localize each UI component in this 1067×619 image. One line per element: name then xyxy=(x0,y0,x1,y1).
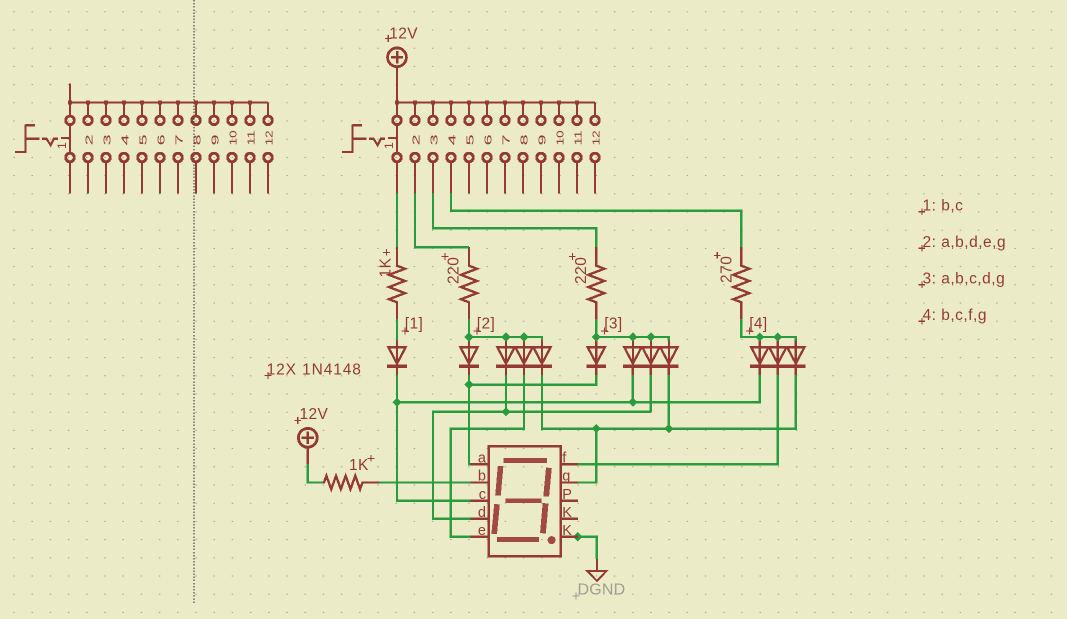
junction xyxy=(592,424,601,433)
diode D4 1N4148 xyxy=(515,339,532,375)
svg-text:1: b,c: 1: b,c xyxy=(923,198,964,215)
connector J1 pin 12 xyxy=(263,103,275,194)
U1 pin f xyxy=(561,451,578,467)
junction xyxy=(501,332,510,341)
connector J1 pin-1 marker xyxy=(15,125,70,152)
label [1] xyxy=(402,316,424,335)
connector J2 pin 8 xyxy=(518,101,530,194)
svg-text:P: P xyxy=(562,487,572,503)
junction xyxy=(573,532,582,541)
svg-text:11: 11 xyxy=(572,130,584,145)
diode group cathode bar (D1-D1) xyxy=(387,365,407,368)
wire net E to segment g xyxy=(578,429,597,483)
junction xyxy=(519,332,528,341)
U1 digit segment g xyxy=(506,499,542,503)
U1 pin b xyxy=(470,469,488,485)
wire display K to ground xyxy=(578,537,597,559)
connector J2 pin 5 xyxy=(464,101,476,194)
svg-text:3: 3 xyxy=(428,134,440,145)
7-segment display U1 xyxy=(489,446,561,556)
wire J2 pin2 to R2 xyxy=(415,193,469,247)
diode group cathode bar (D2-D2) xyxy=(459,365,479,368)
wire net C: D3/D8 cathodes to segment d xyxy=(433,375,651,519)
svg-text:b: b xyxy=(478,469,486,485)
resistor R5 1K (horizontal) xyxy=(323,476,379,489)
svg-text:2: 2 xyxy=(410,134,422,145)
diode D12 1N4148 xyxy=(787,339,804,375)
connector J2 bus wire xyxy=(397,84,595,103)
svg-text:c: c xyxy=(479,487,486,503)
svg-text:10: 10 xyxy=(554,130,566,145)
connector J2 pin 11 xyxy=(572,101,584,194)
svg-text:12X 1N4148: 12X 1N4148 xyxy=(267,362,362,379)
wire R1 to D1 xyxy=(396,319,398,340)
connector J1 pin 8 xyxy=(191,101,203,194)
connector J1 pin 1 xyxy=(55,101,74,194)
connector J1 pin 4 xyxy=(119,101,131,194)
svg-text:1K: 1K xyxy=(377,257,394,277)
svg-text:2: a,b,d,e,g: 2: a,b,d,e,g xyxy=(923,234,1007,251)
connector J1 pin 9 xyxy=(209,101,221,194)
svg-text:8: 8 xyxy=(191,134,203,145)
connector J2 pin 6 xyxy=(482,101,494,194)
diode D1 1N4148 xyxy=(388,339,405,375)
svg-text:12: 12 xyxy=(263,130,275,145)
U1 pin d xyxy=(470,505,488,521)
svg-text:11: 11 xyxy=(245,130,257,145)
label R3 value 220 xyxy=(569,253,590,284)
U1 digit segment c xyxy=(543,503,546,533)
U1 digit decimal point xyxy=(548,536,556,544)
svg-text:7: 7 xyxy=(500,134,512,145)
U1 digit segment f xyxy=(498,466,501,496)
connector J2 pin 7 xyxy=(500,101,512,194)
connector J2 pin 10 xyxy=(554,101,566,194)
svg-text:DGND: DGND xyxy=(578,582,626,599)
junction xyxy=(646,332,655,341)
wire +12V to R5 xyxy=(308,464,323,483)
wire R5 to segment b xyxy=(380,481,471,483)
label [2] xyxy=(474,316,496,335)
label 12X 1N4148 xyxy=(265,362,362,379)
junction xyxy=(501,407,510,416)
svg-text:3: 3 xyxy=(101,134,113,145)
svg-text:4: 4 xyxy=(119,134,131,145)
wire D2 cathode to segment a xyxy=(469,375,470,465)
label R1 value 1K xyxy=(377,249,394,278)
svg-text:4: 4 xyxy=(446,134,458,145)
U1 pin P xyxy=(561,487,578,503)
wire R4 to D10-D12 anodes xyxy=(741,319,796,340)
label DGND xyxy=(573,582,626,600)
svg-text:[3]: [3] xyxy=(604,316,622,333)
svg-text:6: 6 xyxy=(155,134,167,145)
wire J2 pin3 to R3 xyxy=(433,193,596,247)
label +12V (lower-left) xyxy=(294,406,328,424)
diode D11 1N4148 xyxy=(769,339,786,375)
svg-text:7: 7 xyxy=(173,134,185,145)
svg-text:4: b,c,f,g: 4: b,c,f,g xyxy=(923,307,987,324)
junction xyxy=(773,332,782,341)
note 1: b,c xyxy=(918,198,963,216)
connector J2 pin 4 xyxy=(446,101,458,194)
svg-text:10: 10 xyxy=(227,130,239,145)
connector J2 pin 9 xyxy=(536,101,548,194)
wire D11 cathode to segment f xyxy=(578,375,778,465)
connector J2 pin-1 marker xyxy=(342,125,397,152)
junction xyxy=(628,398,637,407)
svg-text:K: K xyxy=(562,523,572,539)
junction xyxy=(592,332,601,341)
connector J1 pin 7 xyxy=(173,101,185,194)
svg-text:K: K xyxy=(562,505,572,521)
svg-text:9: 9 xyxy=(536,134,548,145)
label [3] xyxy=(601,316,623,335)
svg-text:[4]: [4] xyxy=(749,316,767,333)
ground DGND xyxy=(587,559,606,581)
power +12V (lower-left) xyxy=(298,428,317,464)
svg-text:5: 5 xyxy=(464,134,476,145)
diode group cathode bar (D7-D9) xyxy=(623,365,679,368)
junction xyxy=(755,332,764,341)
junction xyxy=(464,380,473,389)
svg-text:e: e xyxy=(478,523,486,539)
diode D7 1N4148 xyxy=(624,339,641,375)
svg-text:12: 12 xyxy=(590,130,602,145)
svg-text:220: 220 xyxy=(573,257,590,284)
diode group cathode bar (D6-D6) xyxy=(587,365,607,368)
connector J2 pin 2 xyxy=(410,101,422,194)
svg-text:d: d xyxy=(478,505,486,521)
diode D10 1N4148 xyxy=(751,339,768,375)
svg-text:[2]: [2] xyxy=(477,316,495,333)
diode D2 1N4148 xyxy=(460,339,477,375)
label R5 value 1K xyxy=(349,455,374,474)
label R4 value 270 xyxy=(714,252,736,283)
connector J1 pin 10 xyxy=(227,101,239,194)
U1 pin a xyxy=(470,451,488,467)
wire net E: D5/D9/D12 cathodes xyxy=(542,375,796,429)
svg-text:2: 2 xyxy=(83,134,95,145)
U1 digit segment e xyxy=(494,504,497,534)
U1 pin g xyxy=(561,469,578,485)
resistor R3 220 xyxy=(588,247,604,319)
junction xyxy=(392,398,401,407)
wire D6 anode bus to D7-D9 xyxy=(596,337,669,340)
U1 pin c xyxy=(470,487,488,503)
junction xyxy=(464,332,473,341)
svg-text:12V: 12V xyxy=(389,25,418,42)
connector J1 bus wire xyxy=(70,84,268,103)
wire D1 cathode to segment c xyxy=(397,402,470,500)
svg-text:9: 9 xyxy=(209,134,221,145)
svg-text:1: 1 xyxy=(55,142,69,149)
connector J1 pin 3 xyxy=(101,101,113,194)
U1 pin K xyxy=(561,523,578,539)
wire net D: D4 cathode to segment e xyxy=(451,375,524,537)
U1 digit segment b xyxy=(546,468,549,497)
diode D3 1N4148 xyxy=(497,339,514,375)
wire R3 to D6 anodes xyxy=(595,319,597,340)
connector J2 pin 1 xyxy=(382,101,401,194)
svg-text:5: 5 xyxy=(137,134,149,145)
U1 pin e xyxy=(470,523,488,539)
resistor R4 270 xyxy=(733,247,749,319)
svg-text:1: 1 xyxy=(382,142,396,149)
svg-text:6: 6 xyxy=(482,134,494,145)
connector J1 pin 5 xyxy=(137,101,149,194)
resistor R1 1K xyxy=(389,247,405,319)
svg-text:1K: 1K xyxy=(349,457,369,474)
diode group cathode bar (D10-D12) xyxy=(750,365,806,368)
note 4: b,c,f,g xyxy=(918,307,987,325)
wire J2 pin1 to R1 xyxy=(396,193,398,247)
wire J2 pin4 to R4 xyxy=(451,193,741,247)
svg-text:220: 220 xyxy=(446,257,463,284)
svg-text:[1]: [1] xyxy=(405,316,423,333)
connector J2 pin 3 xyxy=(428,101,440,194)
wire net A: D1/D7/D10 cathodes xyxy=(397,375,760,402)
wire net B: D2/D6 cathodes xyxy=(469,375,596,385)
svg-text:a: a xyxy=(478,451,487,467)
power +12V (top) xyxy=(388,48,407,103)
label +12V (top) xyxy=(385,25,418,42)
connector J1 pin 6 xyxy=(155,101,167,194)
svg-text:g: g xyxy=(562,469,570,485)
wire D2 anode bus to D3-D5 xyxy=(469,337,542,340)
diode D8 1N4148 xyxy=(642,339,659,375)
svg-text:12V: 12V xyxy=(300,406,329,423)
junction xyxy=(664,424,673,433)
svg-text:8: 8 xyxy=(518,134,530,145)
svg-text:3: a,b,c,d,g: 3: a,b,c,d,g xyxy=(923,271,1006,288)
svg-text:270: 270 xyxy=(719,256,736,283)
diode D6 1N4148 xyxy=(588,339,605,375)
diode D5 1N4148 xyxy=(533,339,550,375)
U1 digit segment d xyxy=(497,537,539,542)
label [4] xyxy=(746,316,768,335)
U1 digit segment a xyxy=(504,458,547,463)
diode D9 1N4148 xyxy=(660,339,677,375)
wire R2 to D2 anodes xyxy=(468,319,470,340)
note 2: a,b,d,e,g xyxy=(918,234,1006,252)
connector J2 pin 12 xyxy=(590,103,602,194)
connector J1 pin 2 xyxy=(83,101,95,194)
diode group cathode bar (D3-D5) xyxy=(496,365,552,368)
sheet border line xyxy=(193,0,195,604)
note 3: a,b,c,d,g xyxy=(918,271,1005,289)
label R2 value 220 xyxy=(442,253,463,284)
U1 pin K xyxy=(561,505,578,521)
resistor R2 220 xyxy=(461,247,477,319)
connector J1 pin 11 xyxy=(245,101,257,194)
junction xyxy=(628,332,637,341)
